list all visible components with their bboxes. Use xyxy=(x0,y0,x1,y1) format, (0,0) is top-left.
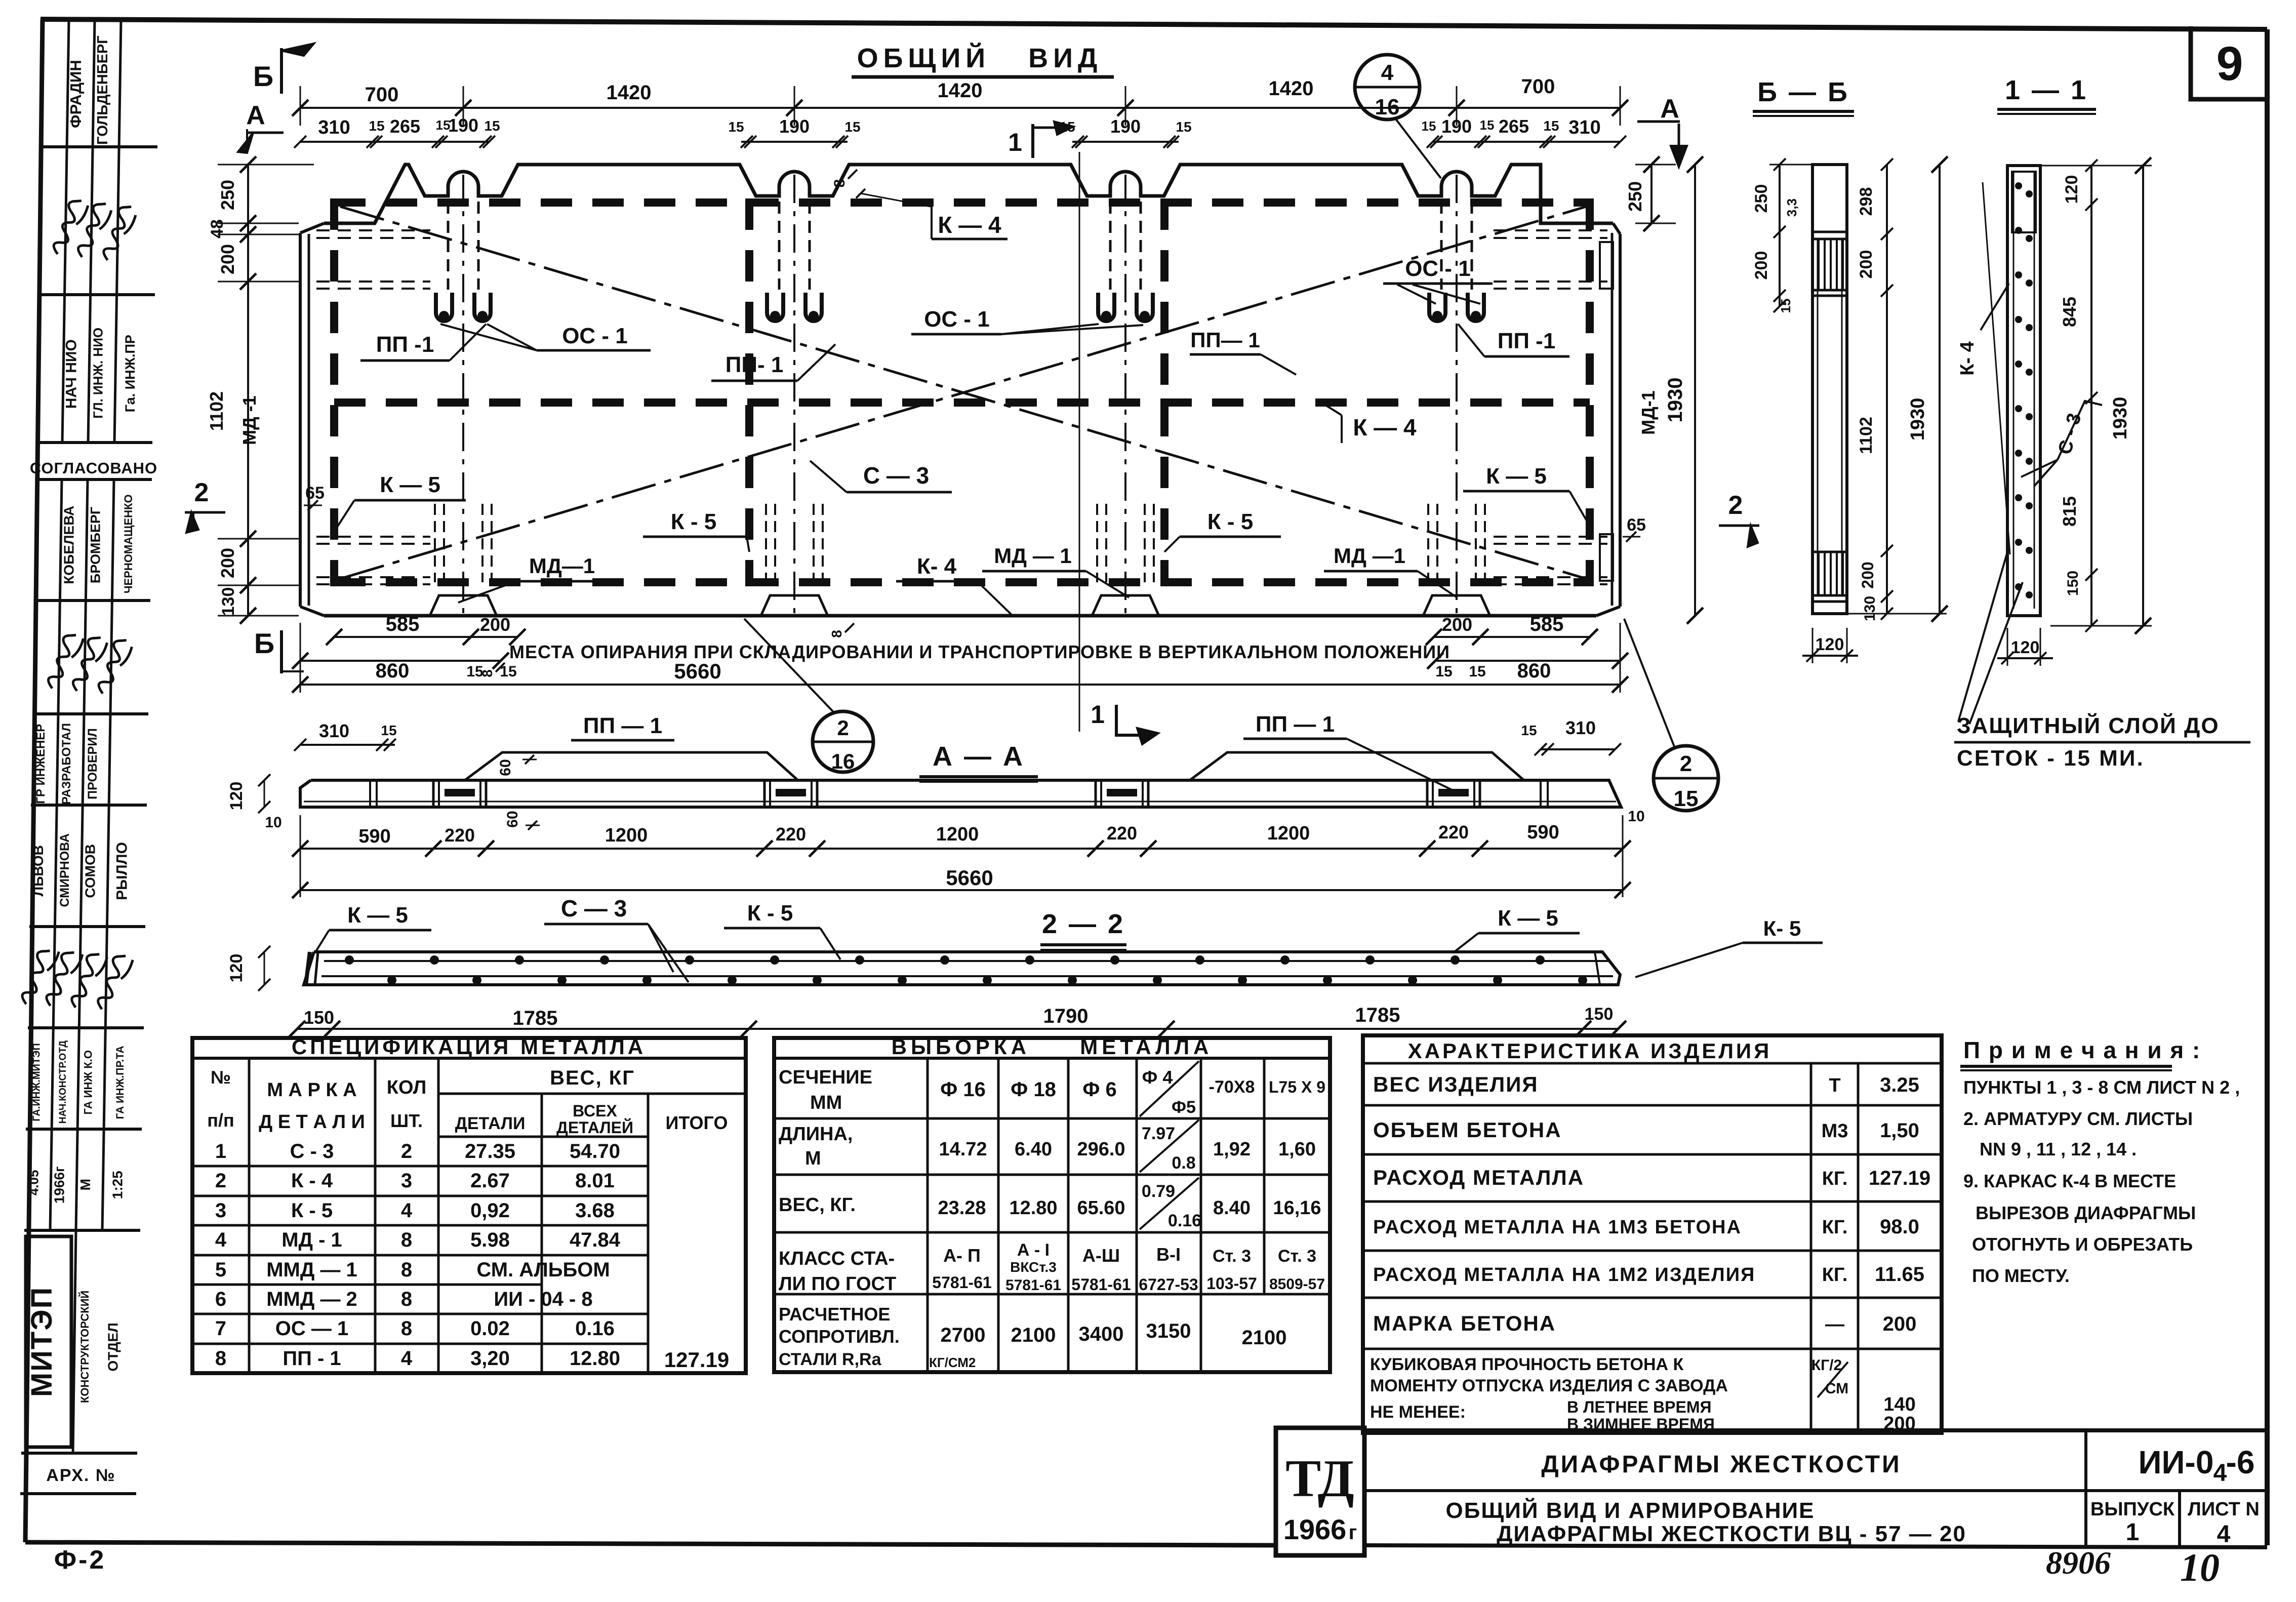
svg-text:СМ: СМ xyxy=(1825,1380,1848,1397)
svg-text:1420: 1420 xyxy=(938,79,983,102)
svg-text:1: 1 xyxy=(1008,128,1022,156)
Б-Б right dims 298/200/1102/200/130 xyxy=(1823,156,1948,622)
svg-text:6: 6 xyxy=(215,1288,226,1310)
svg-text:ПО МЕСТУ.: ПО МЕСТУ. xyxy=(1972,1265,2070,1286)
svg-text:СМИРНОВА: СМИРНОВА xyxy=(58,833,72,907)
svg-text:МД—1: МД—1 xyxy=(529,554,595,578)
svg-text:МД - 1: МД - 1 xyxy=(281,1229,342,1251)
svg-text:190: 190 xyxy=(448,115,478,136)
svg-text:200: 200 xyxy=(217,548,238,578)
svg-text:МД -1: МД -1 xyxy=(239,395,260,445)
svg-text:200: 200 xyxy=(1883,1313,1917,1335)
svg-text:РАСХОД МЕТАЛЛА НА 1М3 БЕТОНА: РАСХОД МЕТАЛЛА НА 1М3 БЕТОНА xyxy=(1373,1217,1742,1238)
svg-text:150: 150 xyxy=(2065,571,2081,596)
svg-text:3.25: 3.25 xyxy=(1880,1074,1919,1096)
A-A overall 5660 xyxy=(292,815,1631,898)
svg-text:2: 2 xyxy=(1728,491,1743,520)
svg-text:№: № xyxy=(211,1067,231,1088)
svg-text:СОГЛАСОВАНО: СОГЛАСОВАНО xyxy=(30,459,157,477)
svg-text:1102: 1102 xyxy=(206,391,227,431)
svg-text:5660: 5660 xyxy=(674,659,721,683)
svg-text:СТАЛИ R,Rа: СТАЛИ R,Rа xyxy=(779,1350,882,1369)
svg-text:2: 2 xyxy=(837,716,849,740)
svg-text:К - 5: К - 5 xyxy=(291,1199,333,1222)
svg-text:МЕСТА ОПИРАНИЯ ПРИ СКЛАДИРОВ: МЕСТА ОПИРАНИЯ ПРИ СКЛАДИРОВАНИИ И ТРАНС… xyxy=(509,642,1450,662)
svg-text:3: 3 xyxy=(215,1199,226,1222)
svg-text:1785: 1785 xyxy=(513,1007,558,1029)
support feet on bottom edge xyxy=(430,595,1490,616)
svg-text:3: 3 xyxy=(401,1170,412,1192)
svg-text:11.65: 11.65 xyxy=(1875,1263,1924,1286)
svg-text:860: 860 xyxy=(376,660,410,682)
svg-text:ПП — 1: ПП — 1 xyxy=(1256,712,1335,737)
svg-text:1930: 1930 xyxy=(1664,378,1686,423)
svg-text:ОС - 1: ОС - 1 xyxy=(562,324,628,348)
svg-text:НАЧ НИО: НАЧ НИО xyxy=(63,339,80,409)
svg-text:2: 2 xyxy=(401,1140,412,1163)
note Защитный слой xyxy=(1954,552,2250,771)
svg-text:ШТ.: ШТ. xyxy=(390,1110,423,1131)
svg-text:15: 15 xyxy=(1422,118,1436,134)
svg-text:КОНСТРУКТОРСКИЙ: КОНСТРУКТОРСКИЙ xyxy=(78,1291,91,1403)
table 2 rows text xyxy=(779,1120,1325,1370)
svg-text:220: 220 xyxy=(1438,822,1469,843)
svg-text:1966г: 1966г xyxy=(52,1166,67,1204)
svg-text:0.8: 0.8 xyxy=(1172,1153,1195,1173)
table 2 header text xyxy=(779,1035,1325,1117)
detail bubble 2/16 xyxy=(744,619,873,773)
svg-text:С - 3: С - 3 xyxy=(290,1140,334,1163)
svg-text:ОБЪЕМ БЕТОНА: ОБЪЕМ БЕТОНА xyxy=(1373,1118,1562,1142)
sidebar КОНСТРУКТОРСКИЙ ОТДЕЛ xyxy=(78,1291,121,1403)
svg-text:10: 10 xyxy=(2180,1545,2220,1589)
svg-text:200: 200 xyxy=(1752,251,1771,280)
svg-text:ДЕТАЛЕЙ: ДЕТАЛЕЙ xyxy=(556,1118,633,1137)
svg-text:0.16: 0.16 xyxy=(1168,1211,1201,1230)
section mark 1 top-right of A-A xyxy=(1091,700,1158,744)
svg-text:ОТДЕЛ: ОТДЕЛ xyxy=(105,1323,120,1371)
svg-text:К — 5: К — 5 xyxy=(1486,464,1547,489)
section mark Б bottom left xyxy=(254,627,304,673)
section mark Б top left xyxy=(253,44,314,94)
svg-text:2: 2 xyxy=(215,1170,226,1192)
svg-text:Ф 16: Ф 16 xyxy=(940,1078,986,1101)
svg-text:8.40: 8.40 xyxy=(1213,1197,1251,1219)
OC-1 lifting hooks xyxy=(436,202,1484,321)
svg-text:К — 4: К — 4 xyxy=(938,212,1001,238)
svg-text:ГЛ. ИНЖ. НИО: ГЛ. ИНЖ. НИО xyxy=(91,328,106,419)
svg-text:220: 220 xyxy=(776,824,806,845)
section 1-1 cut line through panel xyxy=(1079,152,1080,732)
A-A support blocks xyxy=(370,780,1548,807)
svg-text:3.68: 3.68 xyxy=(575,1199,615,1222)
svg-text:5660: 5660 xyxy=(946,866,993,890)
svg-text:БРОМБЕРГ: БРОМБЕРГ xyxy=(88,507,103,583)
svg-text:200: 200 xyxy=(217,244,238,274)
svg-text:М А Р К А: М А Р К А xyxy=(267,1079,356,1101)
svg-text:9. КАРКАС К-4 В МЕСТЕ: 9. КАРКАС К-4 В МЕСТЕ xyxy=(1963,1171,2176,1191)
svg-text:К — 5: К — 5 xyxy=(347,903,408,928)
svg-text:А-Ш: А-Ш xyxy=(1082,1245,1120,1266)
svg-text:1: 1 xyxy=(1091,700,1105,729)
notes ПРИМЕЧАНИЯ xyxy=(1960,1037,2240,1286)
table 1 data rows xyxy=(215,1140,729,1372)
svg-text:1:25: 1:25 xyxy=(110,1171,126,1199)
svg-text:5.98: 5.98 xyxy=(470,1229,510,1251)
svg-text:3150: 3150 xyxy=(1146,1320,1191,1342)
left vertical dimension chain xyxy=(206,156,314,624)
svg-text:2. АРМАТУРУ СМ. ЛИСТЫ: 2. АРМАТУРУ СМ. ЛИСТЫ xyxy=(1963,1108,2193,1129)
svg-text:В-I: В-I xyxy=(1156,1244,1181,1265)
title stamp sidebar grid xyxy=(20,20,157,1494)
svg-text:Га. ИНЖ.ПР: Га. ИНЖ.ПР xyxy=(123,335,138,412)
svg-text:1,92: 1,92 xyxy=(1213,1139,1251,1160)
svg-text:МОМЕНТУ ОТПУСКА ИЗДЕЛИЯ С ЗАВО: МОМЕНТУ ОТПУСКА ИЗДЕЛИЯ С ЗАВОДА xyxy=(1370,1376,1728,1395)
МД-1 end plates at panel right edge xyxy=(1600,242,1613,581)
svg-text:15: 15 xyxy=(1435,663,1452,680)
svg-text:А - I: А - I xyxy=(1017,1240,1050,1260)
svg-text:ЛИ ПО ГОСТ: ЛИ ПО ГОСТ xyxy=(779,1273,896,1295)
svg-text:15: 15 xyxy=(1480,117,1495,133)
svg-text:1102: 1102 xyxy=(1857,417,1876,454)
title block ТД 1966 xyxy=(1283,1449,1357,1545)
sidebar names КОБЕЛЕВА / БРОМБЕРГ / ЧЕРНОМАЩЕНКО xyxy=(61,494,135,593)
svg-text:1930: 1930 xyxy=(2110,397,2131,440)
2-2 bottom chain 150/1785/1790 xyxy=(227,946,1626,1037)
svg-text:5781-61: 5781-61 xyxy=(1005,1277,1061,1294)
svg-text:7: 7 xyxy=(215,1317,226,1340)
svg-text:1,50: 1,50 xyxy=(1880,1119,1919,1142)
svg-text:ОС - 1: ОС - 1 xyxy=(924,307,990,332)
svg-text:Ф 18: Ф 18 xyxy=(1011,1078,1056,1101)
svg-text:К - 5: К - 5 xyxy=(671,509,716,534)
svg-text:К — 5: К — 5 xyxy=(380,472,440,497)
panel labels with leaders xyxy=(239,207,1659,616)
title block names xyxy=(1446,1444,2260,1548)
svg-text:ПП — 1: ПП — 1 xyxy=(583,713,662,738)
svg-text:ВЕС ИЗДЕЛИЯ: ВЕС ИЗДЕЛИЯ xyxy=(1373,1072,1539,1096)
svg-text:4: 4 xyxy=(215,1229,227,1251)
1-1 element outline xyxy=(2007,166,2040,616)
sidebar date / scale row xyxy=(26,1166,125,1204)
main view title ОБЩИЙ ВИД xyxy=(852,43,1114,77)
svg-text:16,16: 16,16 xyxy=(1273,1197,1321,1219)
table 1 header text xyxy=(207,1035,728,1137)
svg-text:Д Е Т А Л И: Д Е Т А Л И xyxy=(259,1111,365,1133)
svg-text:8: 8 xyxy=(401,1317,412,1340)
svg-text:10: 10 xyxy=(1628,808,1644,825)
svg-text:8: 8 xyxy=(401,1229,412,1251)
svg-text:Ф 6: Ф 6 xyxy=(1082,1078,1117,1101)
svg-text:8: 8 xyxy=(829,630,844,638)
C-3 mesh diagonals xyxy=(340,207,1586,579)
svg-text:127.19: 127.19 xyxy=(1869,1167,1930,1189)
svg-text:ГА ИНЖ К.О: ГА ИНЖ К.О xyxy=(82,1050,94,1114)
detail bubble 4/16 xyxy=(1355,55,1441,178)
section 2-2 title xyxy=(1040,909,1126,950)
svg-text:П р и м е ч а н и я :: П р и м е ч а н и я : xyxy=(1963,1037,2201,1063)
svg-text:ВЫБОРКА МЕТАЛЛА: ВЫБОРКА МЕТАЛЛА xyxy=(892,1035,1213,1059)
svg-text:7.97: 7.97 xyxy=(1142,1124,1175,1143)
sidebar signatures (second group) xyxy=(38,629,135,694)
svg-text:265: 265 xyxy=(390,116,420,137)
svg-text:ТД: ТД xyxy=(1285,1449,1354,1508)
svg-text:КГ.: КГ. xyxy=(1822,1217,1848,1238)
svg-text:1420: 1420 xyxy=(1269,77,1314,100)
sidebar signatures (top group) xyxy=(43,196,140,261)
section mark 1 top xyxy=(1008,122,1073,158)
svg-text:815: 815 xyxy=(2059,496,2080,527)
svg-text:190: 190 xyxy=(779,116,810,137)
svg-text:120: 120 xyxy=(1816,635,1844,654)
svg-text:8906: 8906 xyxy=(2046,1545,2111,1581)
svg-text:0.16: 0.16 xyxy=(575,1317,615,1340)
svg-text:9: 9 xyxy=(2217,37,2243,91)
svg-text:200: 200 xyxy=(1857,250,1876,279)
svg-text:4: 4 xyxy=(1381,60,1394,85)
svg-text:2100: 2100 xyxy=(1242,1327,1287,1349)
svg-text:АРХ. №: АРХ. № xyxy=(46,1466,115,1485)
svg-text:16: 16 xyxy=(1375,95,1400,119)
svg-text:15: 15 xyxy=(1469,663,1485,680)
svg-text:МД —1: МД —1 xyxy=(1334,544,1405,568)
svg-text:265: 265 xyxy=(1499,116,1529,137)
svg-text:Ст. 3: Ст. 3 xyxy=(1278,1247,1316,1266)
svg-text:п/п: п/п xyxy=(207,1110,234,1131)
K-4 heavy dashed contour xyxy=(334,198,1590,586)
2-2 rebar dots xyxy=(345,955,1587,985)
svg-text:1966: 1966 xyxy=(1283,1513,1347,1545)
svg-text:НЕ МЕНЕЕ:: НЕ МЕНЕЕ: xyxy=(1370,1403,1466,1422)
svg-text:ПП -1: ПП -1 xyxy=(376,332,434,357)
svg-text:8: 8 xyxy=(215,1347,226,1370)
svg-text:47.84: 47.84 xyxy=(570,1229,621,1251)
svg-text:ОТОГНУТЬ И ОБРЕЗАТЬ: ОТОГНУТЬ И ОБРЕЗАТЬ xyxy=(1972,1234,2193,1255)
sidebar names ЛЬВОВ / СМИРНОВА / СОМОВ / РЫЛЛО xyxy=(30,833,130,907)
MD-1 lower soldier channels xyxy=(435,504,1485,582)
svg-text:2: 2 xyxy=(1680,751,1692,776)
svg-text:МД — 1: МД — 1 xyxy=(994,544,1072,568)
overall 5660 dimension xyxy=(292,623,1628,693)
svg-text:200: 200 xyxy=(1442,614,1472,635)
svg-text:ВЕС, КГ.: ВЕС, КГ. xyxy=(779,1194,856,1216)
svg-text:К- 5: К- 5 xyxy=(1763,916,1801,940)
svg-text:1: 1 xyxy=(215,1140,226,1163)
svg-text:ЛИСТ N: ЛИСТ N xyxy=(2188,1499,2260,1520)
svg-text:8.01: 8.01 xyxy=(575,1170,615,1192)
svg-text:NN 9 , 11 , 12 , 14 .: NN 9 , 11 , 12 , 14 . xyxy=(1980,1139,2137,1159)
svg-text:5: 5 xyxy=(215,1259,226,1281)
svg-text:ОС — 1: ОС — 1 xyxy=(275,1317,348,1340)
svg-text:220: 220 xyxy=(445,825,475,846)
svg-text:КГ/СМ2: КГ/СМ2 xyxy=(929,1355,976,1370)
detail bubble 2/15 xyxy=(1624,619,1718,811)
top dimension row 310/15/265/190 xyxy=(294,115,1626,148)
svg-text:1,60: 1,60 xyxy=(1278,1139,1316,1160)
svg-text:Т: Т xyxy=(1829,1075,1840,1096)
svg-text:3400: 3400 xyxy=(1079,1323,1124,1345)
svg-text:ГА ИНЖ.ПР.ТА: ГА ИНЖ.ПР.ТА xyxy=(114,1046,126,1119)
svg-text:СЕТОК - 15 МИ.: СЕТОК - 15 МИ. xyxy=(1957,746,2145,771)
svg-text:КОБЕЛЕВА: КОБЕЛЕВА xyxy=(61,506,77,584)
1-1 C-3 label xyxy=(2021,401,2102,486)
svg-text:Ф-2: Ф-2 xyxy=(54,1545,106,1575)
svg-text:КОЛ: КОЛ xyxy=(387,1077,426,1098)
svg-text:3,3: 3,3 xyxy=(1784,198,1799,217)
svg-text:15: 15 xyxy=(381,723,396,738)
section 1-1 title xyxy=(1997,75,2096,114)
section mark А top left xyxy=(238,101,284,153)
svg-text:190: 190 xyxy=(1441,116,1472,137)
svg-text:L75 X 9: L75 X 9 xyxy=(1269,1078,1325,1096)
svg-text:2.67: 2.67 xyxy=(470,1170,510,1192)
svg-text:15: 15 xyxy=(1521,723,1537,738)
svg-text:—: — xyxy=(1825,1314,1844,1335)
1-1 bottom 120 dim xyxy=(1997,628,2053,666)
svg-text:2700: 2700 xyxy=(941,1324,986,1346)
svg-text:0.02: 0.02 xyxy=(470,1317,510,1340)
svg-text:15: 15 xyxy=(1543,118,1559,134)
svg-text:65.60: 65.60 xyxy=(1077,1197,1125,1219)
svg-text:ОБЩИЙ ВИД И АРМИРОВАНИЕ: ОБЩИЙ ВИД И АРМИРОВАНИЕ xyxy=(1446,1497,1815,1523)
svg-text:ХАРАКТЕРИСТИКА ИЗДЕЛИЯ: ХАРАКТЕРИСТИКА ИЗДЕЛИЯ xyxy=(1408,1039,1772,1063)
svg-text:г: г xyxy=(1349,1521,1357,1544)
svg-text:310: 310 xyxy=(1568,117,1600,138)
svg-text:150: 150 xyxy=(1585,1005,1614,1024)
Б-Б left dims 250/200/15 xyxy=(1752,158,1823,313)
svg-text:М: М xyxy=(77,1179,93,1190)
svg-text:ОБЩИЙ ВИД: ОБЩИЙ ВИД xyxy=(857,43,1103,73)
svg-text:ММД — 2: ММД — 2 xyxy=(266,1288,357,1310)
svg-text:Б: Б xyxy=(253,60,273,92)
sidebar titles ГЛ.ИНЖ.МИТЭП etc xyxy=(31,1040,126,1124)
svg-text:2 — 2: 2 — 2 xyxy=(1042,909,1125,939)
svg-text:ИИ - 04 - 8: ИИ - 04 - 8 xyxy=(494,1288,592,1310)
svg-text:200: 200 xyxy=(1859,562,1877,588)
panel outline (plan of diaphragm) xyxy=(300,165,1620,616)
svg-text:ПП- 1: ПП- 1 xyxy=(726,352,784,377)
svg-text:К - 5: К - 5 xyxy=(747,901,793,926)
svg-text:220: 220 xyxy=(1107,823,1137,844)
svg-text:4: 4 xyxy=(401,1199,413,1222)
svg-text:ВКСт.3: ВКСт.3 xyxy=(1010,1259,1057,1275)
svg-text:ПРОВЕРИЛ: ПРОВЕРИЛ xyxy=(86,728,100,799)
Б-Б element outline xyxy=(1812,165,1847,614)
svg-text:СОМОВ: СОМОВ xyxy=(83,844,98,898)
PP-1 plate trapezoids above A-A xyxy=(465,712,1524,791)
sidebar job titles НАЧ НИО etc xyxy=(63,328,138,419)
svg-text:0,92: 0,92 xyxy=(470,1199,510,1222)
svg-text:310: 310 xyxy=(319,720,349,741)
svg-text:А- П: А- П xyxy=(943,1245,981,1266)
svg-text:ГА.ИНЖ.МИТЭП: ГА.ИНЖ.МИТЭП xyxy=(31,1043,42,1121)
svg-text:250: 250 xyxy=(1752,184,1771,213)
svg-text:1200: 1200 xyxy=(605,825,648,846)
svg-text:190: 190 xyxy=(1110,116,1141,137)
sidebar titles ИНЖЕНЕР / РАЗРАБОТАЛ / ПРОВЕРИЛ xyxy=(34,723,100,805)
svg-text:Ф5: Ф5 xyxy=(1172,1098,1196,1117)
table 3 text xyxy=(1370,1039,1930,1434)
sidebar МИТЭП box xyxy=(25,1236,71,1447)
Б-Б bottom 120 dim xyxy=(1802,628,1858,663)
sidebar signatures (third group) xyxy=(12,943,134,1011)
svg-text:15: 15 xyxy=(1674,786,1699,811)
svg-text:КЛАСС СТА-: КЛАСС СТА- xyxy=(779,1248,895,1269)
svg-text:585: 585 xyxy=(386,613,420,635)
svg-text:250: 250 xyxy=(1625,181,1645,212)
svg-text:ММД — 1: ММД — 1 xyxy=(266,1259,357,1281)
svg-text:КГ/2: КГ/2 xyxy=(1811,1357,1842,1374)
svg-text:130: 130 xyxy=(1862,596,1878,621)
svg-text:1420: 1420 xyxy=(607,82,652,104)
small 8 dims xyxy=(479,170,931,677)
svg-text:12.80: 12.80 xyxy=(570,1347,620,1370)
right vertical dimensions 250 / 1930 / 65 xyxy=(304,156,1703,624)
svg-text:1: 1 xyxy=(2126,1519,2140,1546)
svg-text:ПП— 1: ПП— 1 xyxy=(1190,328,1260,352)
svg-text:С — 3: С — 3 xyxy=(561,895,627,922)
svg-text:5781-61: 5781-61 xyxy=(1071,1275,1131,1294)
svg-text:Б — Б: Б — Б xyxy=(1757,77,1849,107)
svg-text:65: 65 xyxy=(305,484,325,503)
svg-text:12.80: 12.80 xyxy=(1009,1197,1057,1219)
svg-text:КГ.: КГ. xyxy=(1822,1264,1848,1286)
2-2 labels xyxy=(315,895,1823,982)
svg-text:15: 15 xyxy=(844,119,860,135)
svg-text:120: 120 xyxy=(2062,175,2081,204)
table ВЫБОРКА МЕТАЛЛА frame xyxy=(774,1038,1330,1372)
svg-text:СОПРОТИВЛ.: СОПРОТИВЛ. xyxy=(779,1326,900,1347)
svg-text:60: 60 xyxy=(497,759,514,776)
section A-A title xyxy=(919,741,1038,782)
svg-text:590: 590 xyxy=(358,826,390,847)
svg-text:С — 3: С — 3 xyxy=(863,462,929,489)
svg-text:МАРКА БЕТОНА: МАРКА БЕТОНА xyxy=(1373,1311,1556,1335)
svg-text:8: 8 xyxy=(401,1288,412,1310)
svg-text:127.19: 127.19 xyxy=(664,1348,729,1372)
svg-text:585: 585 xyxy=(1530,613,1564,635)
svg-text:15: 15 xyxy=(728,119,744,135)
svg-text:НАЧ.КОНСТР.ОТД: НАЧ.КОНСТР.ОТД xyxy=(58,1040,68,1124)
svg-text:ИТОГО: ИТОГО xyxy=(666,1112,728,1133)
A-A bottom chain 590/220/1200 xyxy=(292,822,1631,857)
bottom dimension chains 585/200/860 xyxy=(292,613,1628,682)
svg-text:М3: М3 xyxy=(1822,1120,1848,1142)
svg-text:Ф 4: Ф 4 xyxy=(1142,1067,1173,1088)
1-1 right dims 120/845/815/150 xyxy=(2020,157,2152,634)
svg-text:103-57: 103-57 xyxy=(1206,1274,1257,1293)
svg-text:К — 4: К — 4 xyxy=(1353,414,1417,440)
svg-text:150: 150 xyxy=(304,1007,334,1028)
svg-text:А: А xyxy=(1660,94,1679,124)
svg-text:ДИАФРАГМЫ ЖЕСТКОСТИ: ДИАФРАГМЫ ЖЕСТКОСТИ xyxy=(1541,1451,1901,1478)
svg-text:ПУНКТЫ 1 , 3 - 8 СМ ЛИСТ N 2 ,: ПУНКТЫ 1 , 3 - 8 СМ ЛИСТ N 2 , xyxy=(1963,1077,2240,1098)
svg-text:15: 15 xyxy=(436,117,451,133)
sheet number box 9 xyxy=(2191,26,2267,99)
svg-text:310: 310 xyxy=(1565,717,1596,738)
svg-text:120: 120 xyxy=(2011,638,2040,657)
svg-text:845: 845 xyxy=(2059,297,2080,327)
svg-text:296.0: 296.0 xyxy=(1077,1139,1125,1160)
svg-text:-70X8: -70X8 xyxy=(1209,1077,1255,1097)
svg-text:КГ.: КГ. xyxy=(1822,1168,1848,1189)
svg-text:ЗАЩИТНЫЙ СЛОЙ ДО: ЗАЩИТНЫЙ СЛОЙ ДО xyxy=(1957,712,2220,738)
svg-text:ЛЬВОВ: ЛЬВОВ xyxy=(30,845,46,896)
svg-text:1930: 1930 xyxy=(1907,398,1928,441)
svg-text:РАЗРАБОТАЛ: РАЗРАБОТАЛ xyxy=(60,723,73,805)
svg-text:16: 16 xyxy=(831,749,855,773)
svg-text:15: 15 xyxy=(484,118,500,134)
